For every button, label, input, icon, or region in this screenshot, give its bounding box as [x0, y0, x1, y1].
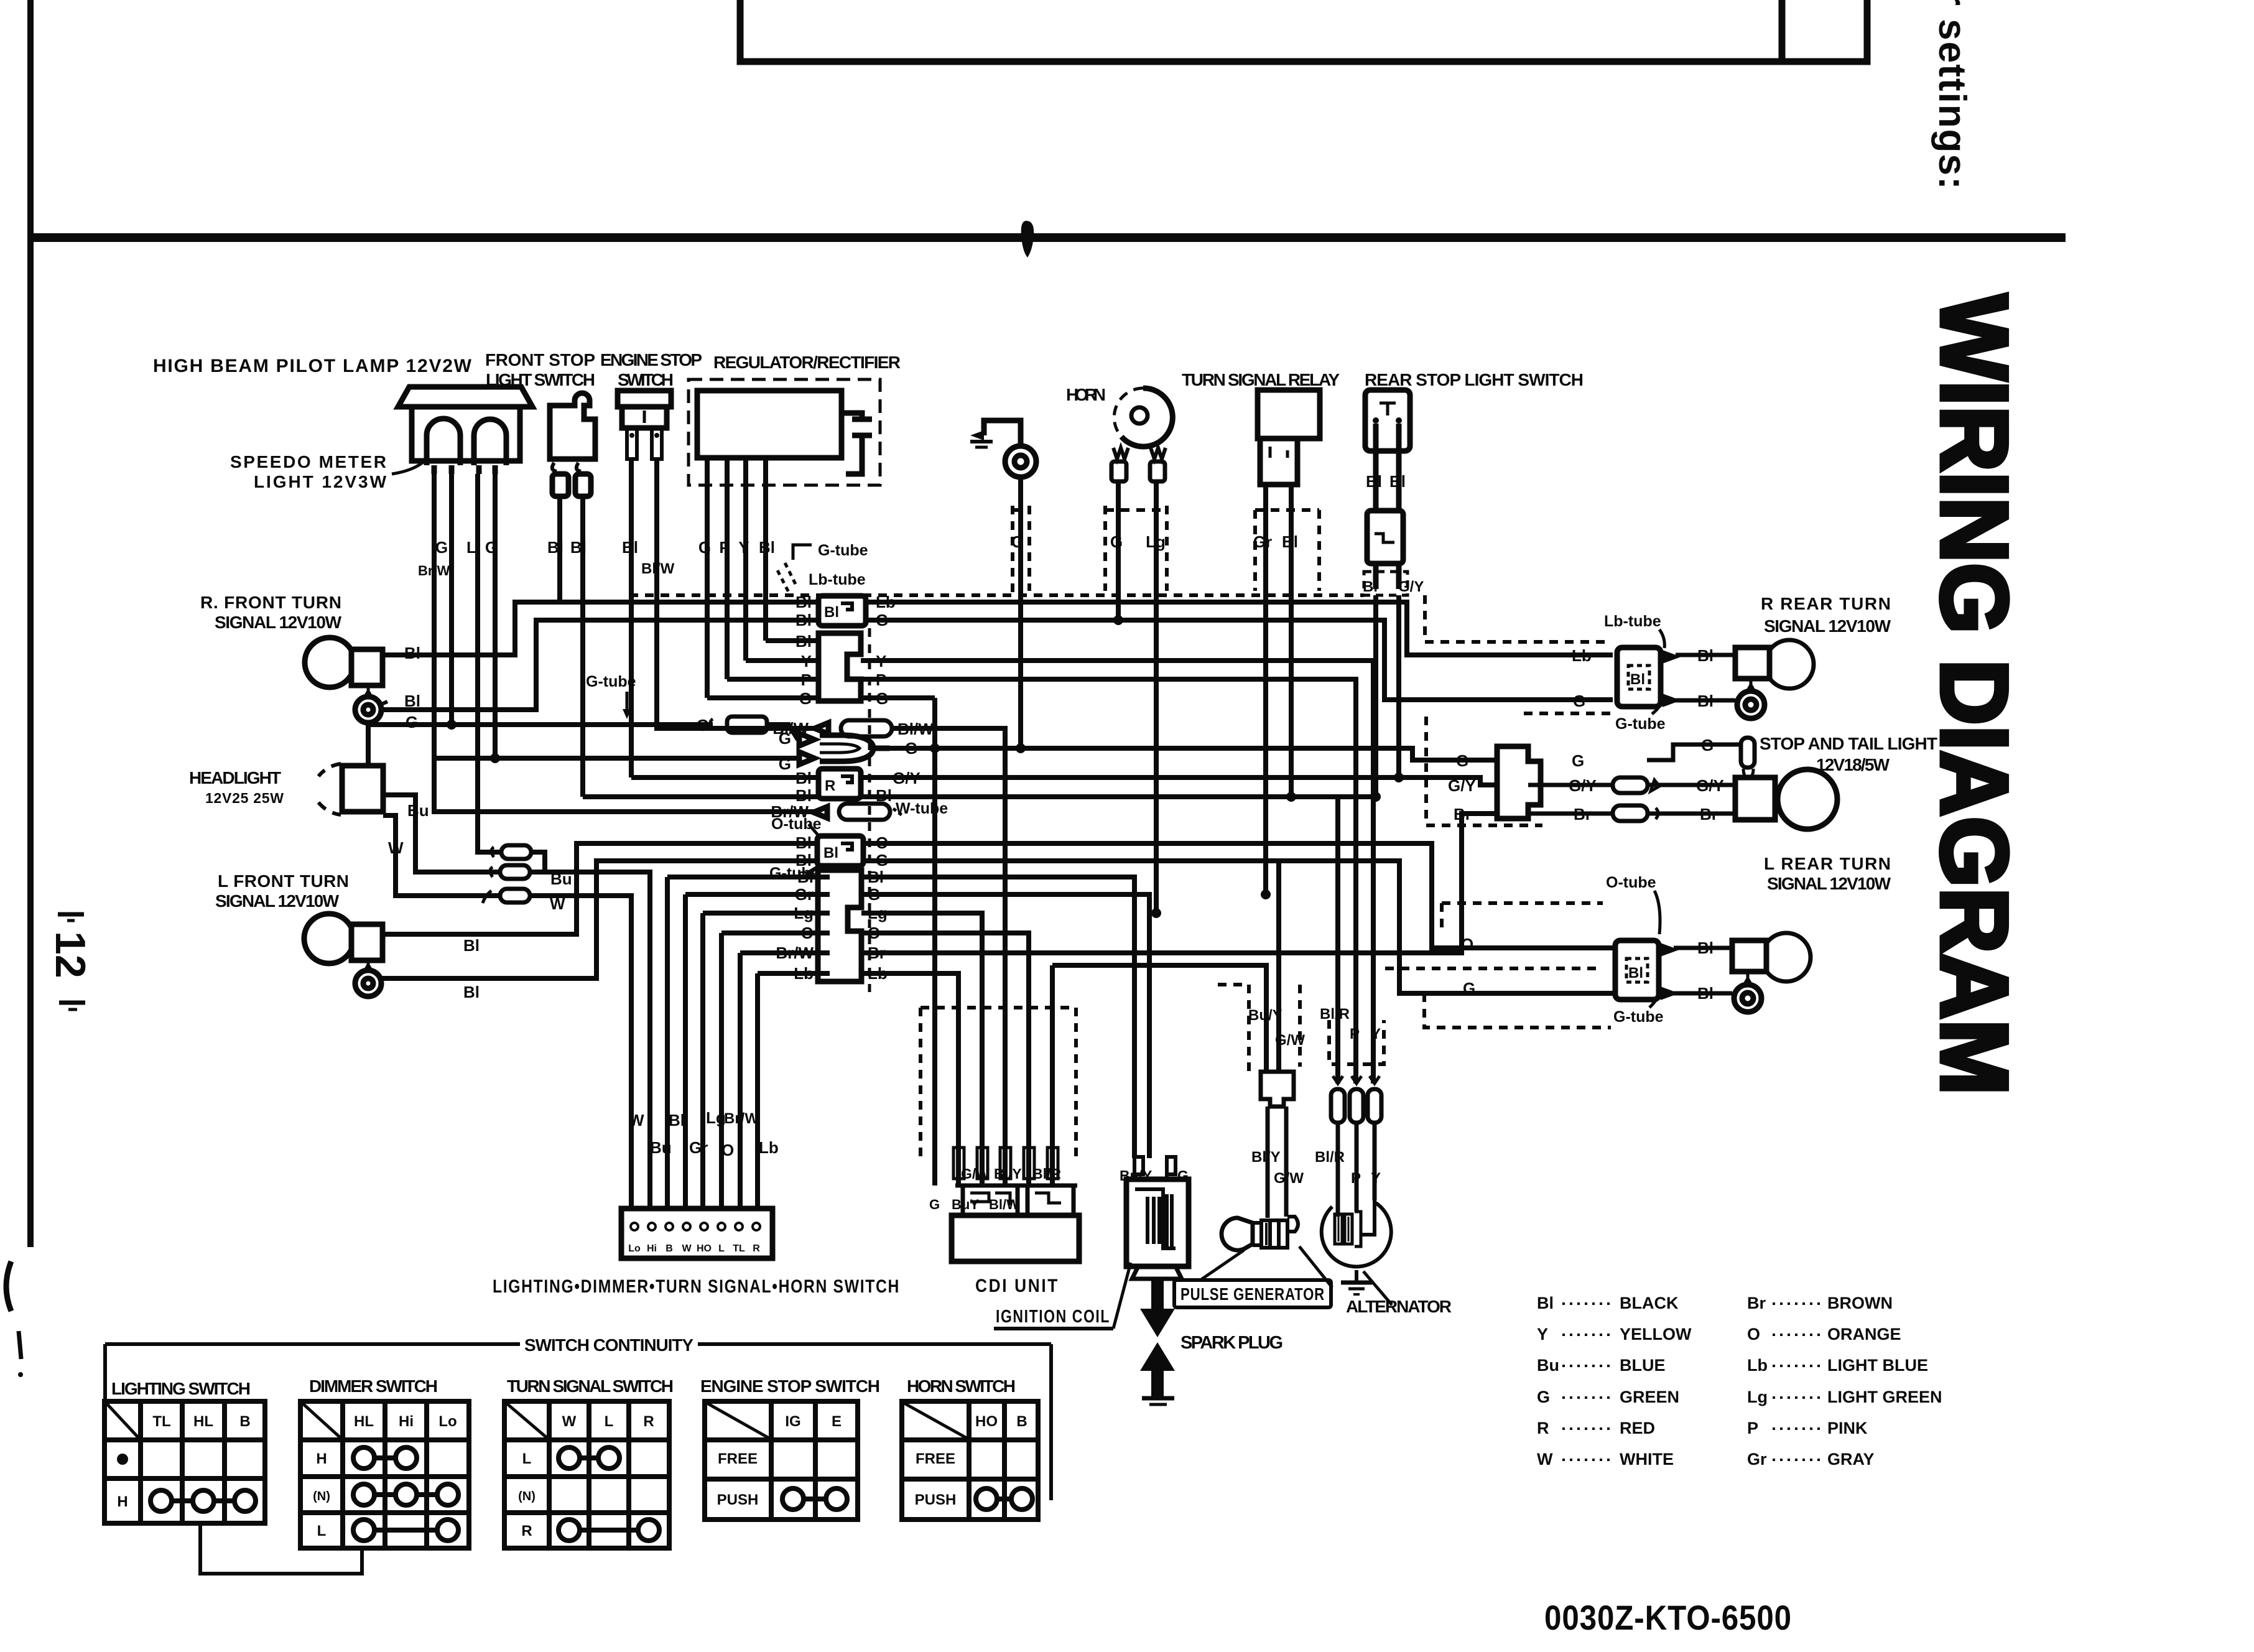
svg-text:HO: HO: [975, 1413, 998, 1430]
svg-text:LIGHT BLUE: LIGHT BLUE: [1827, 1356, 1928, 1375]
svg-text:Bl/W: Bl/W: [989, 1197, 1019, 1212]
svg-text:Lb-tube: Lb-tube: [1604, 613, 1661, 630]
svg-text:ALTERNATOR: ALTERNATOR: [1346, 1297, 1452, 1316]
svg-text:DIMMER SWITCH: DIMMER SWITCH: [309, 1376, 438, 1396]
svg-text:Bl: Bl: [824, 604, 839, 621]
svg-text:Hi: Hi: [399, 1413, 414, 1430]
svg-text:TL: TL: [733, 1243, 745, 1254]
svg-text:BLUE: BLUE: [1620, 1356, 1666, 1375]
svg-text:0030Z-KTO-6500: 0030Z-KTO-6500: [1544, 1598, 1792, 1637]
svg-text:Lb: Lb: [1747, 1356, 1768, 1375]
svg-text:L FRONT TURN: L FRONT TURN: [218, 871, 350, 891]
svg-text:(N): (N): [313, 1490, 330, 1503]
svg-text:LIGHTING SWITCH: LIGHTING SWITCH: [111, 1379, 251, 1398]
svg-text:Bu/Y: Bu/Y: [1248, 1007, 1282, 1024]
svg-text:REGULATOR/RECTIFIER: REGULATOR/RECTIFIER: [713, 353, 902, 372]
svg-text:H: H: [316, 1450, 327, 1467]
svg-text:TL: TL: [152, 1413, 170, 1430]
svg-text:Br: Br: [1747, 1294, 1766, 1312]
svg-text:SIGNAL 12V10W: SIGNAL 12V10W: [215, 613, 343, 632]
svg-text:Lb: Lb: [1572, 646, 1592, 665]
svg-text:R. FRONT TURN: R. FRONT TURN: [200, 593, 343, 612]
svg-text:P: P: [1747, 1419, 1758, 1437]
svg-text:HORN: HORN: [1066, 385, 1107, 404]
svg-text:Bl: Bl: [1363, 578, 1378, 595]
svg-text:R REAR TURN: R REAR TURN: [1761, 594, 1892, 613]
svg-text:Lb: Lb: [759, 1138, 779, 1157]
svg-text:SWITCH CONTINUITY: SWITCH CONTINUITY: [524, 1335, 693, 1355]
svg-text:G-tube: G-tube: [818, 542, 868, 559]
svg-text:Lb-tube: Lb-tube: [809, 571, 866, 588]
svg-text:L: L: [718, 1243, 725, 1254]
svg-text:CDI UNIT: CDI UNIT: [975, 1276, 1059, 1296]
svg-text:Y: Y: [1537, 1325, 1548, 1343]
svg-text:LIGHT 12V3W: LIGHT 12V3W: [254, 472, 387, 491]
svg-text:G: G: [1456, 751, 1468, 770]
svg-text:G: G: [435, 538, 448, 557]
svg-text:HL: HL: [354, 1413, 374, 1430]
svg-text:BuY: BuY: [952, 1197, 979, 1212]
svg-text:Bl/R: Bl/R: [1320, 1006, 1350, 1023]
svg-text:G-tube: G-tube: [586, 673, 636, 690]
svg-text:BROWN: BROWN: [1827, 1294, 1893, 1312]
svg-text:Hi: Hi: [647, 1243, 657, 1254]
svg-text:Bl: Bl: [1697, 939, 1714, 957]
svg-text:Lg: Lg: [1747, 1388, 1768, 1406]
svg-text:ORANGE: ORANGE: [1827, 1325, 1901, 1343]
svg-text:SIGNAL 12V10W: SIGNAL 12V10W: [1767, 874, 1892, 893]
svg-text:R: R: [753, 1243, 760, 1254]
svg-text:PUSH: PUSH: [915, 1492, 957, 1508]
svg-text:PUSH: PUSH: [717, 1492, 759, 1508]
svg-text:GRAY: GRAY: [1827, 1450, 1875, 1469]
svg-text:TURN SIGNAL RELAY: TURN SIGNAL RELAY: [1182, 370, 1341, 389]
svg-text:IGNITION COIL: IGNITION COIL: [996, 1307, 1110, 1327]
svg-text:W: W: [562, 1413, 577, 1430]
svg-text:SPEEDO METER: SPEEDO METER: [230, 452, 387, 471]
svg-text:LIGHTING•DIMMER•TURN SIGNAL•HO: LIGHTING•DIMMER•TURN SIGNAL•HORN SWITCH: [493, 1276, 900, 1297]
svg-text:Br: Br: [1454, 805, 1472, 824]
svg-text:Bl: Bl: [1697, 984, 1714, 1003]
svg-text:O-tube: O-tube: [1606, 874, 1656, 891]
svg-text:HO: HO: [697, 1243, 712, 1254]
svg-text:W: W: [682, 1243, 692, 1254]
svg-text:Bl: Bl: [463, 983, 480, 1001]
svg-text:L: L: [466, 538, 476, 557]
svg-text:REAR STOP LIGHT SWITCH: REAR STOP LIGHT SWITCH: [1365, 370, 1585, 389]
svg-text:Br: Br: [1700, 805, 1718, 824]
svg-text:Bl: Bl: [1389, 472, 1406, 491]
svg-text:HORN SWITCH: HORN SWITCH: [907, 1376, 1016, 1396]
svg-text:Bu/Y: Bu/Y: [1120, 1167, 1152, 1184]
svg-text:G/W: G/W: [1274, 1170, 1304, 1187]
svg-text:G: G: [929, 1197, 940, 1212]
svg-text:Br: Br: [1574, 805, 1592, 824]
svg-text:Lo: Lo: [438, 1413, 457, 1430]
svg-text:Bl: Bl: [823, 845, 838, 861]
svg-text:RED: RED: [1620, 1419, 1655, 1437]
svg-text:Bu: Bu: [1537, 1356, 1559, 1375]
svg-text:Bl: Bl: [1537, 1294, 1554, 1312]
svg-text:PINK: PINK: [1827, 1419, 1868, 1437]
svg-text:B: B: [239, 1413, 250, 1430]
svg-text:12V25 25W: 12V25 25W: [205, 790, 284, 806]
svg-text:L REAR TURN: L REAR TURN: [1764, 854, 1892, 873]
svg-text:L: L: [317, 1523, 327, 1539]
svg-text:Bl/Y: Bl/Y: [1251, 1149, 1281, 1166]
svg-text:Bl: Bl: [1630, 671, 1645, 688]
svg-text:HIGH BEAM PILOT LAMP 12V2W: HIGH BEAM PILOT LAMP 12V2W: [153, 356, 473, 376]
svg-text:WIRING DIAGRAM: WIRING DIAGRAM: [1921, 294, 2027, 1095]
svg-text:B: B: [666, 1243, 673, 1254]
svg-text:Bl/R: Bl/R: [1315, 1149, 1345, 1166]
svg-text:W-tube: W-tube: [896, 800, 948, 817]
svg-text:Bl/R: Bl/R: [1032, 1166, 1061, 1182]
svg-text:GREEN: GREEN: [1620, 1388, 1679, 1406]
svg-text:B: B: [1016, 1413, 1027, 1430]
svg-text:(N): (N): [518, 1490, 536, 1503]
svg-text:G/Y: G/Y: [1448, 776, 1476, 795]
svg-text:TURN SIGNAL SWITCH: TURN SIGNAL SWITCH: [507, 1376, 674, 1396]
svg-text:Bl: Bl: [1697, 692, 1714, 710]
svg-text:W: W: [629, 1111, 644, 1130]
svg-text:G: G: [1537, 1388, 1550, 1406]
svg-text:LIGHT GREEN: LIGHT GREEN: [1827, 1388, 1942, 1406]
svg-text:HL: HL: [193, 1413, 213, 1430]
svg-text:WHITE: WHITE: [1620, 1450, 1674, 1469]
svg-text:Bl/Y: Bl/Y: [994, 1166, 1022, 1182]
svg-text:G: G: [1701, 736, 1714, 754]
svg-text:STOP AND TAIL LIGHT: STOP AND TAIL LIGHT: [1760, 734, 1939, 753]
svg-text:L: L: [605, 1413, 614, 1430]
svg-text:SWITCH: SWITCH: [618, 370, 675, 389]
svg-text:P: P: [1350, 1026, 1360, 1042]
svg-text:G: G: [779, 729, 791, 748]
svg-text:P: P: [1351, 1170, 1361, 1187]
svg-text:FRONT STOP: FRONT STOP: [485, 350, 596, 369]
svg-text:Bl: Bl: [463, 936, 480, 955]
svg-text:Lg: Lg: [706, 1108, 726, 1127]
svg-text:YELLOW: YELLOW: [1620, 1325, 1692, 1343]
svg-text:R: R: [1537, 1419, 1549, 1437]
svg-text:R: R: [825, 777, 835, 794]
svg-text:Gr: Gr: [1747, 1450, 1767, 1469]
svg-text:W: W: [1537, 1450, 1553, 1469]
svg-text:Y: Y: [1371, 1170, 1381, 1187]
svg-text:R: R: [643, 1413, 654, 1430]
svg-text:ENGINE STOP: ENGINE STOP: [600, 350, 703, 369]
svg-text:Y: Y: [1371, 1026, 1381, 1042]
svg-text:G/W: G/W: [1275, 1032, 1305, 1049]
svg-text:G-tube: G-tube: [1615, 715, 1666, 733]
svg-text:HEADLIGHT: HEADLIGHT: [189, 768, 282, 787]
svg-text:L: L: [522, 1450, 532, 1467]
svg-text:BLACK: BLACK: [1620, 1294, 1679, 1312]
svg-text:PULSE GENERATOR: PULSE GENERATOR: [1180, 1284, 1325, 1304]
svg-text:SIGNAL 12V10W: SIGNAL 12V10W: [215, 891, 340, 911]
svg-text:G/W: G/W: [961, 1166, 990, 1182]
svg-text:FREE: FREE: [718, 1450, 758, 1467]
svg-text:Bl: Bl: [1366, 472, 1382, 491]
svg-text:O: O: [1461, 935, 1473, 954]
svg-text:G: G: [1463, 979, 1475, 998]
svg-text:ENGINE STOP SWITCH: ENGINE STOP SWITCH: [700, 1376, 880, 1396]
svg-text:Bl: Bl: [1697, 646, 1714, 665]
svg-text:Br/W: Br/W: [724, 1110, 759, 1127]
svg-text:G/Y: G/Y: [1398, 578, 1424, 595]
svg-text:O: O: [1747, 1325, 1760, 1343]
svg-text:Bl: Bl: [1628, 965, 1643, 981]
svg-text:SIGNAL 12V10W: SIGNAL 12V10W: [1764, 616, 1892, 636]
svg-text:G: G: [1177, 1167, 1189, 1184]
svg-text:G/Y: G/Y: [1696, 776, 1724, 795]
svg-text:G/Y: G/Y: [1569, 776, 1597, 795]
svg-text:12: 12: [47, 931, 94, 978]
svg-text:Bu: Bu: [650, 1138, 672, 1157]
svg-text:IG: IG: [785, 1413, 800, 1430]
svg-text:G: G: [1572, 751, 1584, 770]
svg-text:O: O: [721, 1141, 734, 1159]
svg-text:FREE: FREE: [916, 1450, 955, 1467]
svg-text:Bu: Bu: [407, 801, 429, 820]
svg-text:E: E: [832, 1413, 842, 1430]
svg-text:Bl: Bl: [669, 1111, 685, 1130]
svg-text:or settings:: or settings:: [1931, 0, 1973, 191]
svg-text:SPARK PLUG: SPARK PLUG: [1180, 1333, 1284, 1353]
svg-text:Gr: Gr: [689, 1138, 708, 1157]
svg-text:H: H: [117, 1493, 128, 1510]
svg-text:R: R: [521, 1523, 532, 1539]
svg-text:Lo: Lo: [628, 1243, 641, 1254]
svg-text:G: G: [1573, 692, 1585, 710]
svg-text:12V18/5W: 12V18/5W: [1816, 755, 1891, 774]
svg-text:G-tube: G-tube: [1613, 1008, 1664, 1026]
